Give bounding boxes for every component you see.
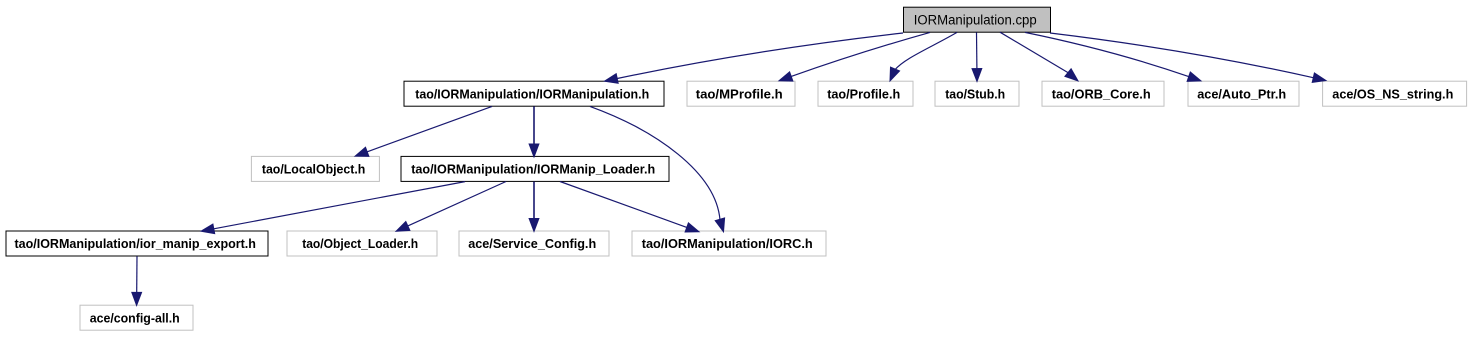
node tao/IORManipulation/IORManipulation.h: [404, 81, 664, 106]
node tao/Profile.h: [818, 81, 913, 106]
edge tao/IORManipulation/IORManip_Loader.h -> tao/IORManipulation/IORC.h: [560, 182, 699, 233]
node tao/IORManipulation/IORManip_Loader.h: [401, 156, 669, 181]
node tao/MProfile.h: [687, 81, 795, 106]
node tao/IORManipulation/IORC.h: [632, 231, 826, 256]
svg-text:tao/MProfile.h: tao/MProfile.h: [696, 86, 783, 101]
node tao/LocalObject.h: [251, 156, 379, 181]
edge IORManipulation.cpp -> tao/Profile.h: [890, 32, 957, 81]
svg-text:ace/Service_Config.h: ace/Service_Config.h: [468, 236, 596, 251]
svg-text:tao/Profile.h: tao/Profile.h: [827, 86, 900, 101]
node tao/IORManipulation/ior_manip_export.h: [6, 231, 268, 256]
edge IORManipulation.cpp -> ace/OS_NS_string.h: [1050, 33, 1326, 82]
svg-text:tao/IORManipulation/ior_manip_: tao/IORManipulation/ior_manip_export.h: [14, 236, 256, 251]
edge IORManipulation.cpp -> tao/IORManipulation/IORManipulation.h: [605, 33, 904, 83]
node ace/OS_NS_string.h: [1323, 81, 1467, 106]
svg-text:tao/IORManipulation/IORManip_L: tao/IORManipulation/IORManip_Loader.h: [411, 162, 655, 177]
svg-text:tao/LocalObject.h: tao/LocalObject.h: [262, 162, 366, 177]
svg-text:ace/OS_NS_string.h: ace/OS_NS_string.h: [1332, 86, 1453, 101]
node tao/Stub.h: [935, 81, 1019, 106]
svg-text:tao/Object_Loader.h: tao/Object_Loader.h: [302, 236, 418, 251]
edge IORManipulation.cpp -> ace/Auto_Ptr.h: [1025, 32, 1201, 81]
node ace/config-all.h: [80, 305, 193, 330]
edge tao/IORManipulation/IORManipulation.h -> tao/IORManipulation/IORC.h: [590, 106, 725, 231]
node ace/Service_Config.h: [459, 231, 609, 256]
edge IORManipulation.cpp -> tao/Stub.h: [972, 32, 982, 81]
node tao/ORB_Core.h: [1042, 81, 1164, 106]
edge tao/IORManipulation/IORManip_Loader.h -> tao/Object_Loader.h: [396, 182, 506, 232]
node tao/Object_Loader.h: [287, 231, 437, 256]
edge tao/IORManipulation/IORManip_Loader.h -> tao/IORManipulation/ior_manip_export.h: [201, 182, 465, 234]
edge IORManipulation.cpp -> tao/ORB_Core.h: [1000, 32, 1078, 81]
svg-text:IORManipulation.cpp: IORManipulation.cpp: [914, 12, 1037, 27]
node IORManipulation.cpp: [904, 7, 1051, 32]
svg-text:tao/Stub.h: tao/Stub.h: [945, 86, 1005, 101]
node ace/Auto_Ptr.h: [1188, 81, 1299, 106]
svg-text:ace/config-all.h: ace/config-all.h: [90, 310, 180, 325]
svg-text:tao/IORManipulation/IORManipul: tao/IORManipulation/IORManipulation.h: [415, 86, 649, 101]
edge tao/IORManipulation/IORManipulation.h -> tao/IORManip_Loader.h: [529, 106, 539, 157]
svg-text:tao/ORB_Core.h: tao/ORB_Core.h: [1052, 86, 1151, 101]
svg-text:tao/IORManipulation/IORC.h: tao/IORManipulation/IORC.h: [642, 236, 813, 251]
svg-text:ace/Auto_Ptr.h: ace/Auto_Ptr.h: [1197, 86, 1286, 101]
edge tao/IORManipulation/IORManip_Loader.h -> ace/Service_Config.h: [529, 182, 539, 232]
edge tao/IORManipulation/IORManipulation.h -> tao/LocalObject.h: [355, 106, 492, 156]
edge IORManipulation.cpp -> tao/MProfile.h: [779, 32, 930, 81]
edge tao/IORManipulation/ior_manip_export.h -> ace/config-all.h: [132, 256, 142, 305]
